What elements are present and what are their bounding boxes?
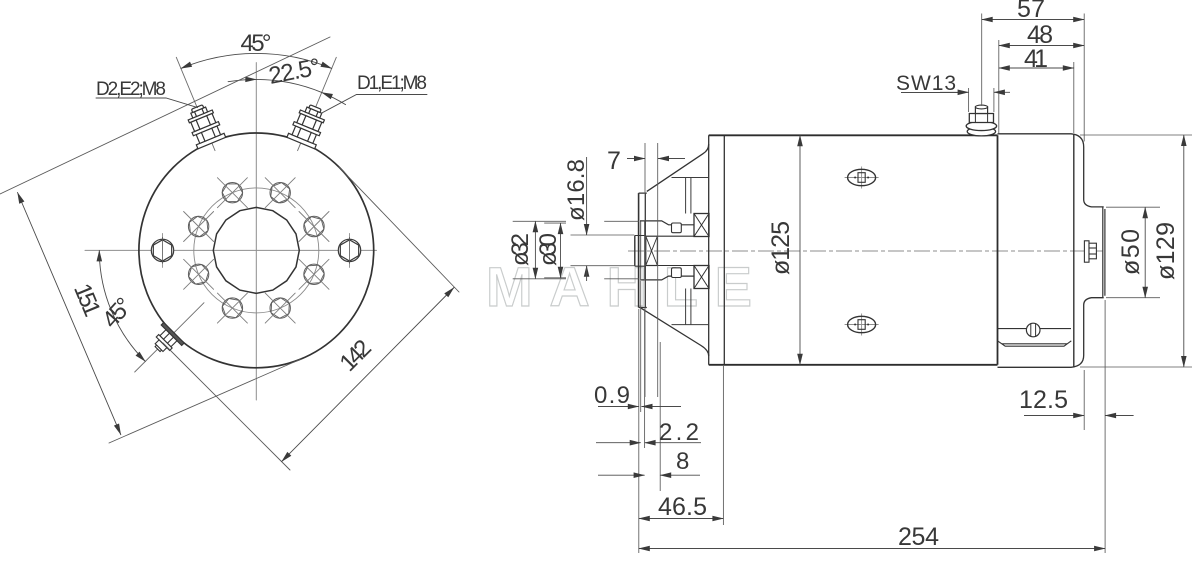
dim 2.2 — [596, 442, 641, 444]
lower-left small stud — [147, 322, 184, 359]
snap ring upper — [672, 223, 682, 233]
mounting flange plate — [639, 193, 647, 307]
svg-text:12.5: 12.5 — [1019, 386, 1068, 414]
svg-text:ø32: ø32 — [507, 233, 534, 266]
svg-text:57: 57 — [1017, 0, 1045, 23]
142 lower extension line through stud tip — [163, 343, 290, 470]
svg-text:46.5: 46.5 — [658, 493, 707, 521]
142 dimension line — [282, 288, 454, 462]
svg-text:ø50: ø50 — [1117, 229, 1145, 275]
svg-text:7: 7 — [607, 147, 621, 175]
center spline bore — [213, 207, 299, 293]
rear end shield outline — [998, 134, 1104, 367]
dim o50 — [1106, 207, 1160, 298]
drive housing internal lower — [672, 289, 709, 325]
dim 8 — [598, 474, 645, 476]
dim 41 — [999, 67, 1074, 69]
dim 254 — [639, 548, 1105, 550]
rear shield inner edge — [1073, 135, 1075, 368]
bolt hole 2 — [265, 178, 295, 208]
motor cylinder body — [709, 135, 725, 364]
side through-bolt left — [151, 233, 173, 267]
extension lines top (57/48/41) — [982, 14, 1084, 142]
dim o16.8 — [571, 235, 635, 266]
151 dimension line — [18, 193, 121, 435]
45 deg lower-left angle dimension arc — [99, 250, 145, 361]
151 extension line through D2 tip — [0, 37, 330, 194]
svg-text:41: 41 — [1024, 45, 1048, 73]
dim 46.5 — [639, 518, 724, 520]
dim 57 — [982, 19, 1084, 21]
svg-text:8: 8 — [676, 448, 689, 475]
bolt hole 5 — [184, 259, 214, 289]
label leader D2,E2;M8 — [96, 98, 198, 108]
flange shim lines — [641, 221, 645, 279]
terminal stud D2 — [183, 101, 226, 149]
bolt hole 7 — [265, 293, 295, 323]
horizontal centerline — [85, 249, 377, 251]
dim 12.5 — [1024, 415, 1084, 417]
main flange circle — [139, 133, 374, 368]
svg-text:2.2: 2.2 — [659, 419, 699, 446]
svg-text:SW13: SW13 — [896, 72, 956, 95]
lower extension lines — [639, 281, 1105, 553]
dim 7 — [645, 143, 658, 397]
front drive-end cone lower — [640, 307, 709, 356]
dim o125 — [799, 135, 801, 364]
bolt hole 4 — [184, 212, 214, 242]
main front bearing lower box — [694, 266, 709, 289]
terminal stud axis D1 (67.5 deg) — [298, 57, 337, 150]
dim o32 — [513, 221, 639, 278]
shaft collar lower profile — [640, 276, 694, 280]
cylinder / end-shield joint — [997, 135, 999, 364]
shaft collar upper profile — [640, 221, 694, 225]
SW13 terminal stud — [966, 105, 996, 136]
inspection oval upper — [845, 167, 879, 189]
right view horizontal centerline — [628, 250, 1103, 252]
dim o30 — [544, 223, 566, 278]
main front bearing upper box — [694, 214, 709, 237]
svg-text:ø30: ø30 — [535, 233, 562, 266]
rear hub nut — [1084, 241, 1096, 262]
45 deg top angle dimension arc — [181, 53, 332, 68]
front drive-end cone upper — [647, 144, 709, 191]
svg-text:ø16.8: ø16.8 — [563, 159, 590, 221]
151 lower extension line — [109, 359, 301, 443]
svg-text:0.9: 0.9 — [594, 382, 630, 409]
inspection oval lower — [845, 314, 879, 336]
left view: flange front face — [0, 37, 459, 470]
svg-text:45°: 45° — [241, 30, 272, 57]
svg-text:254: 254 — [898, 523, 939, 551]
shaft tip (Ø16.8) — [634, 236, 636, 267]
rear hub face — [1103, 207, 1105, 298]
label leader D1,E1;M8 — [321, 95, 427, 114]
side through-bolt right — [338, 233, 360, 267]
terminal stud axis D2 (112.5 deg) — [176, 57, 215, 150]
22.5 deg angle dimension arc with outside arrows — [228, 79, 256, 81]
bolt hole 3 — [217, 178, 247, 208]
lower stud axis (225 deg) — [135, 303, 204, 372]
SW13 label leader and dim — [901, 92, 960, 94]
svg-text:ø129: ø129 — [1152, 222, 1180, 280]
dim 48 — [999, 45, 1084, 47]
bolt hole 1 — [299, 212, 329, 242]
142 upper extension line — [339, 167, 459, 292]
bolt circle — [194, 188, 319, 313]
snap ring lower — [672, 268, 682, 278]
bolt hole 6 — [217, 293, 247, 323]
dim o129 — [1080, 135, 1192, 367]
dim 0.9 — [598, 406, 639, 408]
shaft body lines — [657, 236, 694, 265]
terminal stud D1 — [287, 101, 330, 149]
band screw — [1026, 323, 1040, 337]
brush cover band — [998, 329, 1072, 347]
svg-text:D2,E2;M8: D2,E2;M8 — [96, 79, 166, 100]
front bearing box at flange — [646, 236, 658, 265]
svg-text:ø125: ø125 — [767, 221, 795, 275]
vertical centerline — [255, 63, 257, 400]
svg-text:D1,E1;M8: D1,E1;M8 — [357, 73, 427, 94]
drive housing internal upper — [672, 178, 709, 214]
bolt hole 8 — [299, 259, 329, 289]
